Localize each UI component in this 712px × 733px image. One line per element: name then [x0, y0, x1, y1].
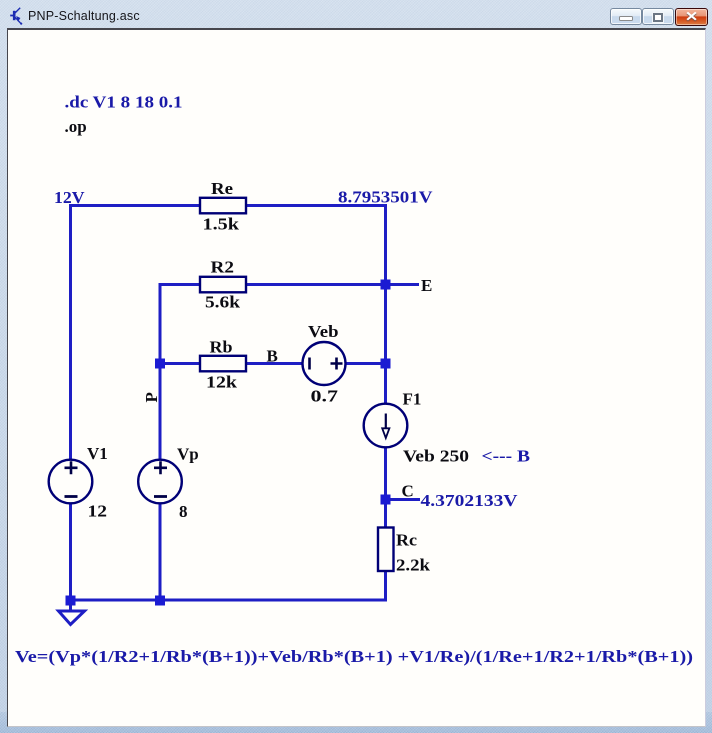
value 8 — [179, 502, 188, 521]
annotation arrow text B — [482, 447, 531, 466]
label F1 — [403, 390, 422, 409]
port label C — [402, 482, 414, 501]
wire middle rail (net P) — [159, 283, 162, 460]
wire C stub — [386, 498, 421, 501]
wire E stub — [386, 283, 420, 286]
maximize button — [642, 8, 674, 25]
node square E — [381, 280, 391, 290]
wire middle rail lower — [159, 503, 162, 602]
svg-text:Ve=(Vp*(1/R2+1/Rb*(B+1))+Veb/R: Ve=(Vp*(1/R2+1/Rb*(B+1))+Veb/Rb*(B+1) +V… — [15, 647, 693, 666]
net label P (rotated) — [142, 392, 161, 402]
window bottom border edge — [0, 712, 712, 733]
svg-text:B: B — [267, 347, 278, 366]
svg-text:Vp: Vp — [177, 445, 199, 464]
svg-text:4.3702133V: 4.3702133V — [421, 491, 519, 510]
voltage source Veb — [303, 342, 346, 385]
window title — [28, 9, 140, 23]
net voltage label 8.7953501V — [338, 188, 433, 207]
wire Rb row — [160, 362, 386, 365]
formula annotation Ve — [15, 647, 693, 666]
svg-text:8: 8 — [179, 502, 188, 521]
svg-text:Rc: Rc — [396, 531, 417, 550]
value text Veb 250 — [403, 447, 469, 466]
current source F1 — [364, 404, 408, 448]
close button — [675, 8, 708, 26]
svg-text:Re: Re — [211, 179, 233, 198]
node square ground junction — [66, 596, 76, 606]
resistor Re — [200, 198, 246, 214]
wire right rail bottom — [384, 570, 387, 602]
label Rc — [396, 531, 417, 550]
label Vp — [177, 445, 199, 464]
svg-text:V1: V1 — [87, 444, 108, 463]
svg-text:E: E — [421, 276, 432, 295]
value 0.7 — [311, 387, 339, 406]
svg-text:Veb 250: Veb 250 — [403, 447, 469, 466]
svg-text:5.6k: 5.6k — [205, 293, 241, 312]
value 5.6k — [205, 293, 241, 312]
svg-text:12k: 12k — [206, 372, 238, 391]
svg-text:P: P — [142, 392, 161, 402]
node square Vp junction — [155, 596, 165, 606]
label Veb — [308, 322, 339, 341]
value 1.5k — [203, 215, 240, 234]
svg-text:2.2k: 2.2k — [396, 556, 431, 575]
svg-text:C: C — [402, 482, 414, 501]
net voltage label 4.3702133V — [421, 491, 519, 510]
value 12k — [206, 372, 238, 391]
svg-text:Rb: Rb — [210, 337, 233, 356]
wire R2 row — [159, 283, 386, 286]
node square right-mid — [381, 359, 391, 369]
wire right rail — [384, 204, 387, 404]
voltage source Vp — [138, 460, 182, 504]
svg-text:.dc V1 8 18 0.1: .dc V1 8 18 0.1 — [65, 93, 183, 112]
label V1 — [87, 444, 108, 463]
node square C — [381, 495, 391, 505]
svg-text:0.7: 0.7 — [311, 387, 339, 406]
svg-text:R2: R2 — [211, 258, 235, 277]
port label E — [421, 276, 432, 295]
node B label — [267, 347, 278, 366]
svg-text:8.7953501V: 8.7953501V — [338, 188, 433, 207]
ground symbol — [59, 604, 85, 625]
voltage source V1 — [49, 460, 93, 504]
wire top rail — [71, 204, 386, 207]
spice directive .op — [65, 117, 87, 136]
svg-text:.op: .op — [65, 117, 87, 136]
label R2 — [211, 258, 235, 277]
wire bottom rail — [69, 599, 386, 602]
svg-text:12: 12 — [88, 502, 108, 521]
LTspice app icon — [6, 4, 30, 28]
resistor R2 — [200, 277, 246, 293]
svg-text:F1: F1 — [403, 390, 422, 409]
value 12 — [88, 502, 108, 521]
label Re — [211, 179, 233, 198]
wire left rail lower — [69, 503, 72, 601]
resistor Rb — [200, 356, 246, 372]
label Rb — [210, 337, 233, 356]
wire right rail mid (F1 to C to Rc) — [384, 447, 387, 528]
resistor Rc — [378, 528, 394, 572]
node square left-mid (P junction) — [155, 359, 165, 369]
spice directive .dc — [65, 93, 183, 112]
svg-text:<--- B: <--- B — [482, 447, 531, 466]
svg-text:1.5k: 1.5k — [203, 215, 240, 234]
net voltage label 12V — [54, 188, 85, 207]
value 2.2k — [396, 556, 431, 575]
svg-text:Veb: Veb — [308, 322, 339, 341]
minimize button — [610, 8, 642, 25]
wire left rail upper — [69, 204, 72, 460]
